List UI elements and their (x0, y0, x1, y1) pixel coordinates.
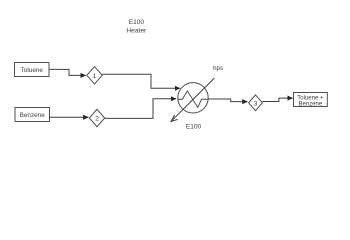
svg-text:Heater: Heater (126, 28, 147, 35)
wire node 1 to heater inlet (102, 74, 180, 88)
svg-text:Benzene: Benzene (20, 112, 46, 119)
svg-text:1: 1 (93, 73, 97, 80)
heat exchanger zigzag coil (178, 91, 208, 108)
node 1 (87, 67, 102, 84)
wire node 2 to heater inlet (105, 99, 176, 119)
svg-text:E100: E100 (129, 19, 145, 26)
wire node 3 to product box (262, 98, 292, 101)
wire Benzene to node 2 (50, 116, 89, 118)
stream sink Toluene + Benzene (294, 93, 328, 108)
node 3 (249, 95, 263, 111)
energy stream hps line (172, 78, 215, 121)
svg-text:Benzene: Benzene (299, 102, 323, 108)
wire heater outlet to node 3 (208, 99, 247, 102)
heat exchanger E100 body (178, 83, 208, 113)
stream source Toluene (15, 63, 50, 77)
svg-text:hps: hps (213, 65, 223, 72)
wire Toluene to node 1 (49, 69, 86, 75)
energy stream open arrowhead (171, 115, 178, 122)
node 2 (89, 109, 104, 126)
svg-text:2: 2 (95, 116, 99, 123)
svg-text:E100: E100 (186, 123, 202, 130)
stream source Benzene (15, 108, 50, 122)
svg-text:3: 3 (254, 100, 258, 107)
svg-text:Toluene: Toluene (21, 67, 44, 74)
